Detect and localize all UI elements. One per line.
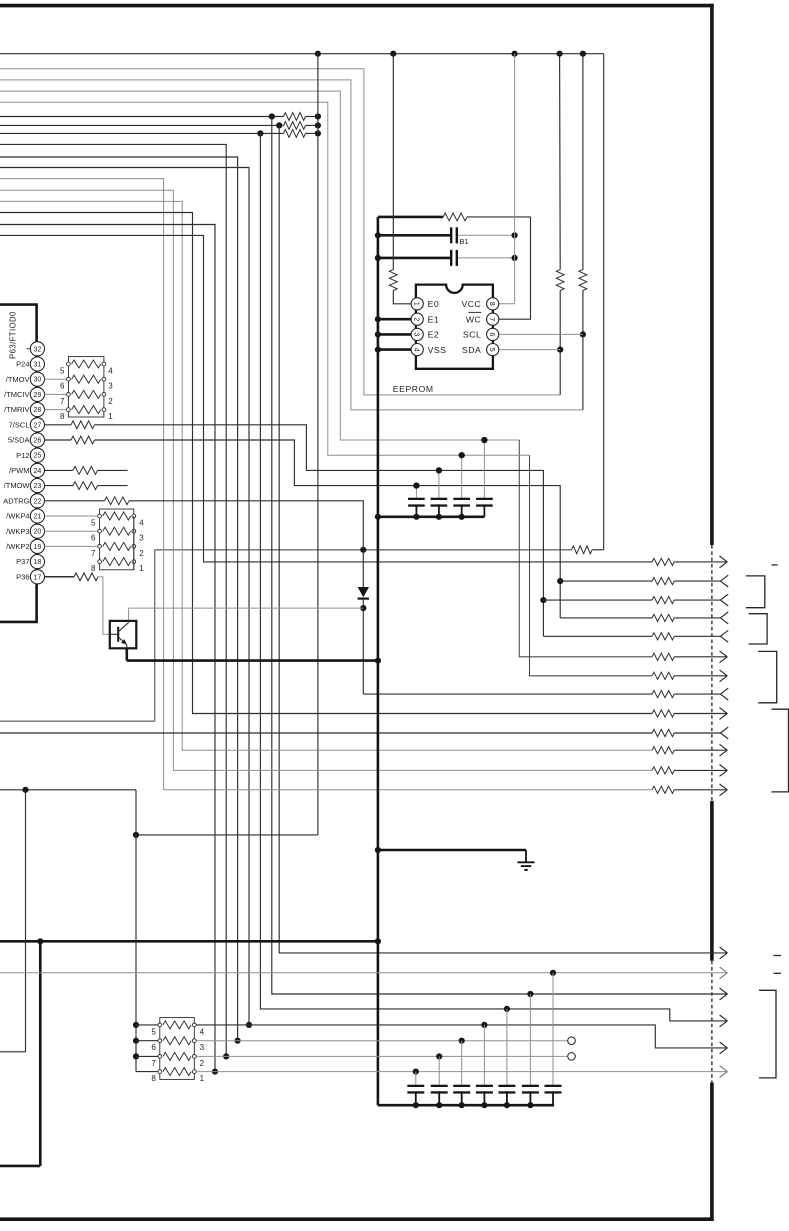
svg-text:E0: E0 xyxy=(428,299,440,309)
svg-text:/PWM: /PWM xyxy=(9,466,29,475)
svg-text:P12: P12 xyxy=(16,451,29,460)
svg-text:3: 3 xyxy=(200,1043,205,1052)
svg-text:4: 4 xyxy=(139,519,144,528)
resistor R5 (E0 pull-up) xyxy=(389,54,411,304)
ic U2 pin 20 xyxy=(6,524,44,538)
svg-text:2: 2 xyxy=(200,1059,205,1068)
wire pin20 to RN2 xyxy=(45,530,98,532)
wire Q1 emitter to ground bus xyxy=(127,648,381,663)
wire RN3 row3 to test point xyxy=(196,1037,575,1045)
wire W4 (feed to connector row6) xyxy=(0,91,652,657)
svg-text:18: 18 xyxy=(34,559,42,566)
wire pin24 stub xyxy=(45,469,128,471)
ic U2 pin 27 xyxy=(9,418,45,432)
svg-text:4: 4 xyxy=(413,348,422,352)
wire pin30 to RN1 xyxy=(45,378,67,380)
svg-text:1: 1 xyxy=(200,1074,205,1083)
svg-text:6: 6 xyxy=(60,382,65,391)
wire rail branch x318 xyxy=(133,54,318,838)
svg-text:23: 23 xyxy=(34,483,42,490)
svg-text:ADTRG: ADTRG xyxy=(3,496,29,505)
wire W2 (SDA feed from left) xyxy=(0,69,560,395)
wire thick bottom row xyxy=(0,938,381,1166)
resistor-network RN1 element 6/3 xyxy=(60,375,113,391)
resistor R10 (pin24 series) xyxy=(73,467,98,475)
resistor R7 (SCL pull-up) xyxy=(579,54,587,410)
resistor-network RN2 element 6/3 xyxy=(91,527,144,543)
resistor-network RN2 element 8/1 xyxy=(91,558,144,574)
svg-text:26: 26 xyxy=(34,438,42,445)
svg-text:EEPROM: EEPROM xyxy=(393,384,434,394)
capacitor C9 xyxy=(476,1025,493,1108)
wire row10 from left edge xyxy=(0,732,652,734)
ic U2 pin 23 xyxy=(4,479,45,493)
ic U1 pin 8 VCC xyxy=(461,298,498,310)
junction W6 xyxy=(315,113,321,119)
resistor-network RN1 element 8/1 xyxy=(60,406,113,422)
ic U1 pin 2 E1 xyxy=(411,313,439,325)
ic U2 pin 19 xyxy=(6,539,44,553)
svg-text:7: 7 xyxy=(488,317,497,321)
svg-text:/TMCIV: /TMCIV xyxy=(4,390,29,399)
ground symbol xyxy=(517,862,534,870)
wire ground branch xyxy=(375,847,526,862)
wire cap bank bus xyxy=(375,514,485,520)
resistor R4 (EEPROM supply) xyxy=(378,213,531,221)
ic U2 pin 21 xyxy=(6,509,44,523)
wire pin27 net xyxy=(45,425,653,637)
svg-text:3: 3 xyxy=(108,382,113,391)
connector bracket C xyxy=(758,651,777,702)
ic U1 pin 3 E2 xyxy=(411,328,439,340)
svg-text:25: 25 xyxy=(34,453,42,460)
capacitor C10 xyxy=(498,1009,515,1108)
svg-text:/TMOW: /TMOW xyxy=(4,481,31,490)
transistor Q1 box xyxy=(110,621,137,648)
svg-text:1: 1 xyxy=(413,302,422,306)
svg-text:B1: B1 xyxy=(460,237,469,246)
wire W6 row xyxy=(0,113,318,119)
wire SCL to pull-up xyxy=(499,333,583,335)
resistor R27 and connector arrow row13 xyxy=(652,784,727,796)
svg-text:/WKP4: /WKP4 xyxy=(6,512,29,521)
svg-text:6: 6 xyxy=(488,332,497,336)
wire rail loop bottom xyxy=(0,787,158,1072)
connector bracket B xyxy=(749,614,767,644)
resistor R16 and connector arrow row2 xyxy=(652,575,728,587)
resistor R6 (SDA pull-up) xyxy=(556,54,564,395)
wire pin22 net xyxy=(45,501,364,587)
wire pin28 to RN1 xyxy=(45,409,67,411)
svg-text:7: 7 xyxy=(60,397,65,406)
resistor R17 and connector arrow row3 xyxy=(652,594,728,606)
wire RN3 row4 to arrow xyxy=(196,1022,727,1048)
ic U1 pin 1 E0 xyxy=(411,298,439,310)
wire WC net xyxy=(499,217,531,319)
ic U2 pin 25 xyxy=(16,448,44,462)
connector arrow A4 xyxy=(720,1015,728,1027)
resistor R21 and connector arrow row7 xyxy=(652,670,727,682)
resistor R12 (pin22 series) xyxy=(105,497,130,505)
capacitor C1 xyxy=(408,483,425,520)
junction W8 xyxy=(315,130,321,136)
wire diode cathode net xyxy=(129,599,653,695)
wire W16 to RN3 pin1 row xyxy=(0,225,218,1075)
wire pin26 net xyxy=(45,440,653,618)
ic U2 pin 24 xyxy=(9,463,44,477)
svg-text:VCC: VCC xyxy=(461,299,481,309)
svg-text:6: 6 xyxy=(91,534,96,543)
ic U1 pin 4 VSS xyxy=(411,344,446,356)
wire pin19 to RN2 xyxy=(45,545,98,547)
svg-text:P36: P36 xyxy=(16,572,29,581)
resistor R11 (pin23 series) xyxy=(73,482,98,490)
svg-text:17: 17 xyxy=(34,574,42,581)
svg-text:2: 2 xyxy=(108,397,113,406)
svg-text:5: 5 xyxy=(60,367,65,376)
ic U2 pin 30 xyxy=(6,372,45,386)
wire VCC rail xyxy=(0,51,604,550)
wire E1 stub xyxy=(375,316,411,322)
svg-text:E1: E1 xyxy=(428,314,440,324)
ic U2 pin 26 xyxy=(8,433,45,447)
label EEPROM xyxy=(393,384,434,394)
svg-text:8: 8 xyxy=(151,1074,156,1083)
capacitor C7 xyxy=(431,1056,448,1108)
capacitor B1 xyxy=(375,227,518,246)
svg-text:31: 31 xyxy=(34,362,42,369)
wire RN3 common stubs xyxy=(136,1025,158,1057)
wire VSS stub xyxy=(375,347,411,353)
connector mark dash A1 xyxy=(774,955,782,957)
svg-text:4: 4 xyxy=(200,1027,205,1036)
wire W5 (feed to connector row7) xyxy=(0,102,652,676)
capacitor C11 xyxy=(522,994,539,1108)
svg-text:7: 7 xyxy=(151,1059,156,1068)
svg-text:2: 2 xyxy=(139,549,144,558)
ic U2 pin 32 xyxy=(30,342,44,356)
resistor R26 and connector arrow row12 xyxy=(652,765,727,777)
connector arrow A2 xyxy=(720,967,728,979)
resistor-network RN3 element 6/3 xyxy=(151,1037,204,1053)
wire pin23 stub xyxy=(45,485,128,487)
wire SDA to pull-up xyxy=(499,349,560,351)
capacitor C6 xyxy=(407,1072,424,1109)
svg-text:WC: WC xyxy=(466,314,481,324)
svg-text:21: 21 xyxy=(34,514,42,521)
connector bracket A xyxy=(746,576,765,608)
resistor-network RN1 box xyxy=(68,357,104,417)
svg-text:P37: P37 xyxy=(16,557,29,566)
resistor R2 xyxy=(284,122,306,130)
resistor R19 and connector arrow row5 xyxy=(652,630,728,642)
svg-text:E2: E2 xyxy=(428,330,440,340)
svg-text:4: 4 xyxy=(108,367,113,376)
svg-text:7/SCL: 7/SCL xyxy=(9,420,30,429)
resistor-network RN1 element 7/2 xyxy=(60,390,113,406)
resistor R25 and connector arrow row11 xyxy=(652,744,727,756)
resistor R23 and connector arrow row9 xyxy=(652,708,727,720)
svg-text:SCL: SCL xyxy=(463,330,481,340)
wire W9 to RN3 pin2 row xyxy=(0,144,229,1059)
capacitor C3 xyxy=(453,452,470,520)
wire W8 row xyxy=(0,130,318,136)
capacitor C2 xyxy=(431,467,448,520)
svg-text:24: 24 xyxy=(34,468,42,475)
svg-text:7: 7 xyxy=(91,549,96,558)
svg-text:SDA: SDA xyxy=(462,345,481,355)
resistor-network RN3 element 7/2 xyxy=(151,1052,204,1068)
svg-text:28: 28 xyxy=(34,407,42,414)
connector bracket E xyxy=(759,990,776,1078)
svg-text:VSS: VSS xyxy=(428,345,447,355)
resistor R8 (pin27 series) xyxy=(71,421,95,429)
wire RN2 common bus xyxy=(133,516,135,570)
svg-text:5: 5 xyxy=(488,348,497,352)
svg-text:20: 20 xyxy=(34,529,42,536)
svg-text:8: 8 xyxy=(60,412,65,421)
ic U2 pin 18 xyxy=(16,555,44,569)
svg-text:1: 1 xyxy=(108,412,113,421)
resistor R18 and connector arrow row4 xyxy=(652,612,728,624)
svg-text:3: 3 xyxy=(413,332,422,336)
svg-text:5/SDA: 5/SDA xyxy=(8,436,30,445)
svg-text:30: 30 xyxy=(34,377,42,384)
capacitor C8 xyxy=(453,1041,470,1109)
wire RN3 row2 to test point xyxy=(196,1053,575,1061)
connector arrow A8 xyxy=(720,1066,728,1078)
wire ground bus vertical xyxy=(378,217,554,1105)
resistor R15 and connector arrow row1 xyxy=(652,556,727,568)
resistor R13 (pin17 series) xyxy=(74,573,98,581)
wire pin29 to RN1 xyxy=(45,393,67,395)
resistor R9 (pin26 series) xyxy=(71,436,95,444)
ic U1 EEPROM box xyxy=(416,285,493,369)
svg-text:22: 22 xyxy=(34,498,42,505)
svg-text:8: 8 xyxy=(488,302,497,306)
wire W10 to RN3 pin3 row xyxy=(0,157,241,1044)
resistor R1 xyxy=(284,113,306,121)
diode D1 xyxy=(358,587,369,599)
wire W6 signal to bottom row A3 xyxy=(272,117,728,998)
resistor R3 xyxy=(284,130,306,138)
wire W13 to connector row12 xyxy=(0,190,652,770)
connector bracket D xyxy=(771,709,788,792)
ic U2 pin 29 xyxy=(4,387,44,401)
resistor R22 and connector arrow row8 xyxy=(652,688,728,700)
resistor-network RN2 element 5/4 xyxy=(91,512,144,528)
connector arrow A3 xyxy=(720,988,728,1000)
wire RN3 row1 to arrow xyxy=(196,1069,727,1075)
resistor R24 and connector arrow row10 xyxy=(652,727,728,739)
wire W14 to connector row11 xyxy=(0,201,652,750)
connector mark dash row1 xyxy=(772,564,778,566)
svg-text:P63/FTIOD0: P63/FTIOD0 xyxy=(9,311,18,359)
svg-text:8: 8 xyxy=(91,564,96,573)
wire W17 to connector row1 xyxy=(0,235,652,562)
resistor-network RN1 element 5/4 xyxy=(60,360,113,376)
resistor R14 (rail pull-up on row to diode) xyxy=(572,546,593,554)
resistor-network RN2 box xyxy=(100,509,134,570)
ic U1 pin 6 SCL xyxy=(463,328,499,340)
resistor-network RN3 element 5/4 xyxy=(151,1021,204,1037)
ic U2 pin 22 xyxy=(3,494,44,508)
capacitor C12 xyxy=(545,973,562,1105)
connector arrow A1 xyxy=(720,947,728,959)
svg-text:/TMRIV: /TMRIV xyxy=(4,405,29,414)
svg-text:19: 19 xyxy=(34,544,42,551)
wire pin21 to RN2 xyxy=(45,515,98,517)
resistor-network RN2 element 7/2 xyxy=(91,542,144,558)
svg-text:5: 5 xyxy=(151,1027,156,1036)
junction W7 xyxy=(315,122,321,128)
resistor R20 and connector arrow row6 xyxy=(652,651,727,663)
resistor-network RN3 box xyxy=(160,1018,195,1080)
wire row A2 from left xyxy=(0,970,727,976)
capacitor C5 xyxy=(375,250,518,266)
svg-text:5: 5 xyxy=(91,519,96,528)
svg-text:P24: P24 xyxy=(16,360,29,369)
svg-text:27: 27 xyxy=(34,422,42,429)
svg-text:32: 32 xyxy=(34,346,42,353)
wire pin17 net xyxy=(45,577,110,635)
svg-text:/WKP2: /WKP2 xyxy=(6,542,29,551)
svg-text:/WKP3: /WKP3 xyxy=(6,527,29,536)
wire E2 stub xyxy=(375,331,411,337)
wire row 550 (pull-up row to diode junction) xyxy=(0,547,604,722)
wire W11 to RN3 pin4 row xyxy=(0,168,252,1029)
connector arrow A5 xyxy=(720,1042,728,1054)
connector mark dash A2 xyxy=(774,972,782,974)
wire W8 signal to bottom row A4 xyxy=(260,133,727,1021)
wire W3 (SCL feed from left) xyxy=(0,80,583,410)
ic U1 pin 7 WC xyxy=(466,312,499,325)
ic U2 pin 17 xyxy=(16,570,44,584)
wire W7 signal to bottom row A1 xyxy=(279,125,727,953)
svg-text:/TMOV: /TMOV xyxy=(6,375,30,384)
wire VCC to EEPROM pin8 xyxy=(499,54,515,304)
resistor-network RN3 element 8/1 xyxy=(151,1068,204,1084)
wire W15 to connector row9 xyxy=(0,213,652,714)
svg-text:6: 6 xyxy=(151,1043,156,1052)
wire W12 to connector row13 xyxy=(0,179,652,790)
transistor Q1 symbol xyxy=(110,621,129,648)
svg-text:3: 3 xyxy=(139,534,144,543)
ic U2 microcontroller box xyxy=(0,305,37,622)
wire W7 row xyxy=(0,122,318,128)
svg-text:1: 1 xyxy=(139,564,144,573)
pin label P63/FTIOD0 (vertical) xyxy=(9,311,31,359)
svg-text:29: 29 xyxy=(34,392,42,399)
ic U2 pin 28 xyxy=(4,403,44,417)
capacitor C4 xyxy=(476,437,493,517)
svg-text:2: 2 xyxy=(413,317,422,321)
ic U1 pin 5 SDA xyxy=(462,344,499,356)
ic U2 pin 31 xyxy=(16,357,44,371)
